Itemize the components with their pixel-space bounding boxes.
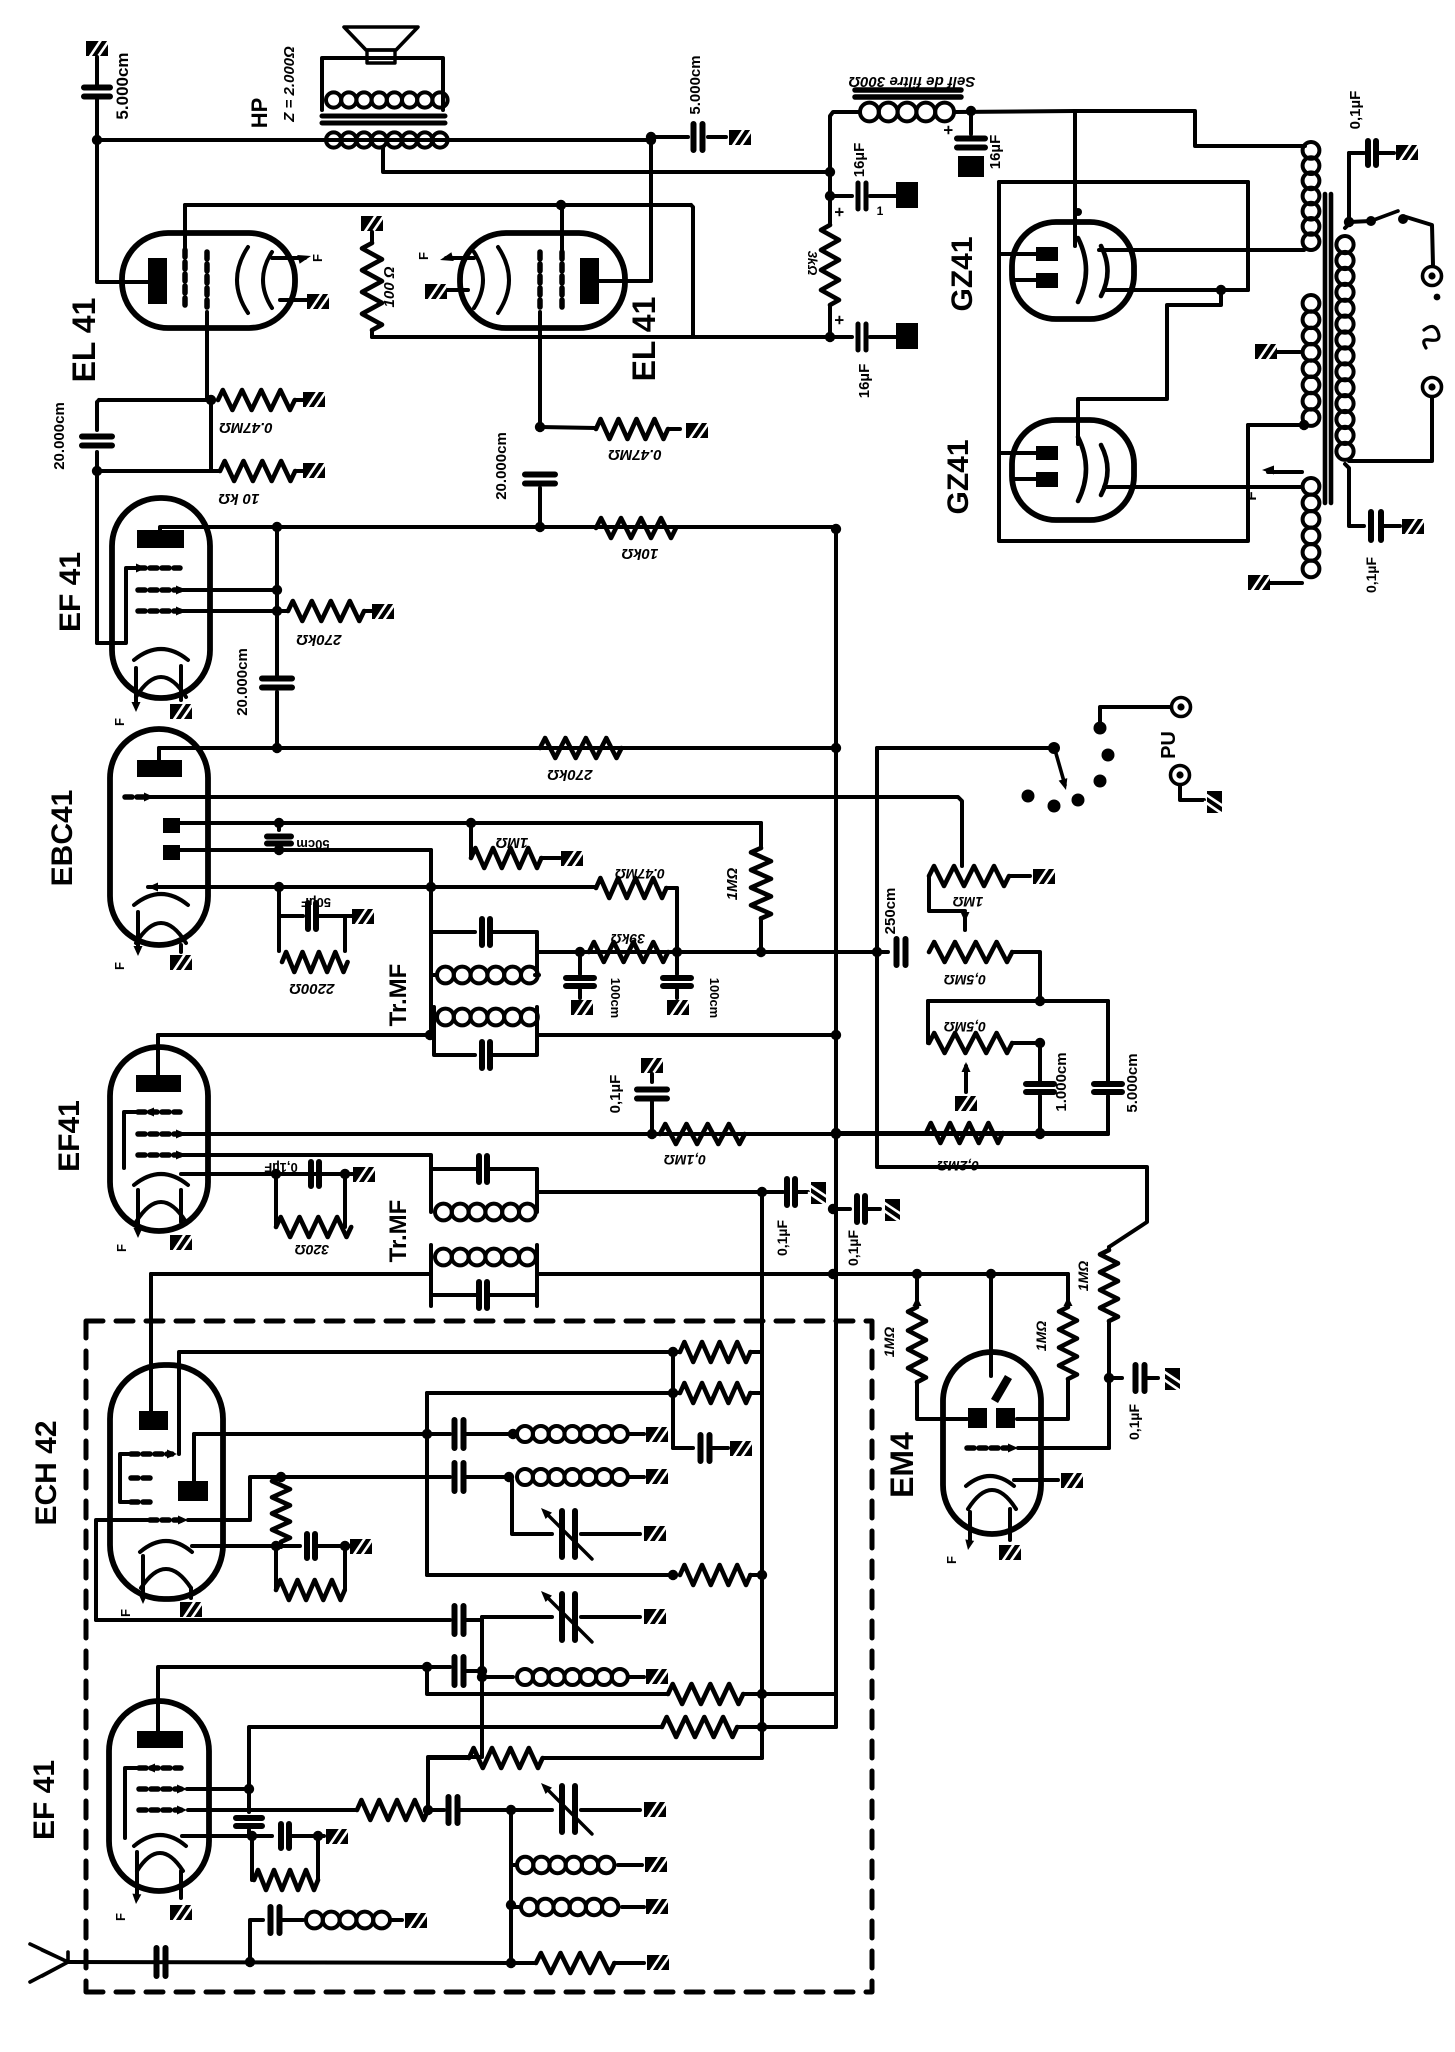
EL41 V2 cathode to ground: [446, 288, 468, 292]
EF41 V5 cathode arc: [134, 649, 188, 660]
resistor R31 cathode: [250, 1836, 254, 1880]
wire g2 line y1134: [181, 1132, 1108, 1136]
tube GZ41 V3 envelope: [1012, 222, 1134, 319]
tube GZ41 V4 envelope: [1012, 420, 1134, 520]
resistor 10kΩ R5 screen feed: [596, 518, 676, 538]
ECH42 V9 heater ground: [189, 1588, 193, 1598]
svg-text:20.000cm: 20.000cm: [51, 402, 68, 470]
EL41 V2 grid column 1: [559, 252, 565, 312]
svg-text:5.000cm: 5.000cm: [113, 52, 132, 119]
wire x277 coupling vertical: [275, 527, 279, 675]
EF41 V7 grid row2: [138, 1131, 180, 1137]
speaker HP cone: [344, 27, 418, 50]
wire 39k line y952: [539, 950, 888, 954]
capacitor 0.1µF C9 mains bottom: [1371, 512, 1381, 540]
wire GZ41 V4 cathode to filament winding: [1104, 485, 1302, 489]
capacitor C33 wave trap: [271, 1907, 280, 1933]
resistor 0.47MΩ R1: [206, 395, 216, 405]
svg-text:0,1µF: 0,1µF: [1347, 91, 1364, 130]
wire oscillator rail x762: [760, 1192, 764, 1758]
resistor 1MΩ R9 grid leak: [469, 823, 473, 857]
wire g3 line y611: [182, 609, 288, 613]
speaker voice coil box: [367, 50, 395, 63]
svg-text:F: F: [118, 1609, 133, 1617]
ECH42 V9 triode plate: [178, 1481, 208, 1501]
resistor osc cathode R23: [274, 1546, 278, 1590]
EBC41 V6 grid row: [125, 794, 148, 800]
resistor R29: [357, 1800, 428, 1820]
wire plate line to cap C28: [427, 1665, 450, 1669]
EL41 V2 cathode arc: [498, 247, 509, 313]
potentiometer 0.5MΩ R14: [929, 942, 1012, 962]
svg-text:270kΩ: 270kΩ: [296, 631, 342, 648]
wire ECH42 cathode line y1546: [192, 1544, 300, 1548]
capacitor C26 bypass: [673, 1446, 693, 1450]
svg-text:5.000cm: 5.000cm: [1124, 1053, 1141, 1112]
svg-text:1MΩ: 1MΩ: [881, 1327, 897, 1357]
capacitor 0.1µF C20: [787, 1179, 795, 1205]
svg-text:0,1µF: 0,1µF: [1126, 1404, 1142, 1441]
svg-text:0,5MΩ: 0,5MΩ: [944, 1019, 986, 1035]
plug symbol: [1424, 326, 1439, 348]
wire grid column x211 down: [209, 400, 213, 471]
ECH42 V9 triode plate lead: [192, 1434, 196, 1481]
EF41 V10 grid row2: [139, 1786, 181, 1792]
transformer Tr.MF1 primary coil: [429, 934, 433, 975]
svg-text:0,1µF: 0,1µF: [1363, 557, 1379, 594]
EF41 V7 cathode arc: [134, 1174, 188, 1185]
switch S2 contact b: [1048, 800, 1061, 813]
switch S2 contact f: [1094, 722, 1107, 735]
resistor R30 antenna coupling: [428, 1756, 469, 1760]
EBC41 V6 heater hook: [136, 923, 186, 943]
ECH42 V9 grid row4: [150, 1517, 182, 1523]
EF41 V10 internal bracket: [125, 1768, 141, 1838]
EF41 V5 plate: [137, 530, 184, 548]
svg-text:39kΩ: 39kΩ: [611, 931, 645, 947]
EL41 V1 screen lead up: [183, 205, 187, 250]
capacitor 100cm C14: [675, 952, 679, 974]
capacitor C28: [455, 1657, 464, 1685]
EBC41 V6 diode plate 2: [163, 845, 180, 860]
resistor R26: [680, 1565, 750, 1585]
svg-text:0,1MΩ: 0,1MΩ: [664, 1152, 706, 1168]
EF41 V7 cathode line y1174: [181, 1172, 352, 1176]
svg-text:F: F: [113, 1913, 128, 1921]
svg-text:2200Ω: 2200Ω: [289, 980, 335, 997]
node y527 x540: [535, 522, 545, 532]
EF41 V10 plate: [137, 1731, 183, 1748]
wire MF1 to rail y1035: [537, 1033, 836, 1037]
switch S1 lever: [1349, 221, 1371, 222]
switch S2 contact d: [1094, 775, 1107, 788]
wire y1434 triode plate line: [194, 1432, 450, 1436]
svg-text:+: +: [830, 207, 849, 217]
EF41 V5 grid1 internal lead: [97, 568, 140, 643]
wire grid line y797: [148, 797, 962, 865]
wire cathode line y887: [148, 885, 596, 889]
capacitor 250cm C15: [897, 939, 906, 965]
wire eye ray electrode: [989, 1274, 993, 1376]
transformer Tr.MF2 primary tuning cap: [479, 1282, 487, 1308]
transformer T1 primary winding: [1336, 236, 1353, 460]
EL41 V2 plate: [580, 258, 599, 304]
svg-text:0.47MΩ: 0.47MΩ: [608, 446, 662, 463]
wire primary top to switch line: [1345, 153, 1349, 228]
resistor 39kΩ R11: [589, 942, 668, 962]
svg-text:EM4: EM4: [884, 1432, 920, 1498]
EF41 V10 plate lead: [158, 1667, 427, 1731]
output transformer core: [322, 116, 445, 123]
terminal PU hot: [1172, 698, 1191, 717]
EL41 V1 grid lead down: [205, 312, 209, 400]
resistor 270kΩ R7 plate load: [540, 738, 622, 758]
transformer T1 filament winding S3: [1303, 478, 1320, 577]
tube EBC41 V6 envelope: [110, 729, 208, 945]
transformer Tr.MF2 secondary tuning cap: [479, 1156, 487, 1182]
svg-text:100cm: 100cm: [707, 978, 722, 1018]
EF41 V10 cathode arc: [134, 1835, 186, 1846]
coil L3 antenna: [517, 1669, 628, 1685]
wire bus2 y205 screen line: [185, 203, 691, 207]
capacitor C25 padder: [455, 1463, 464, 1491]
capacitor 100cm C13: [578, 952, 582, 974]
svg-text:F: F: [112, 962, 127, 970]
EL41 V1 cathode to ground: [280, 298, 307, 302]
EF41 V10 heater ground: [179, 1871, 183, 1898]
transformer T1 core: [1325, 194, 1331, 503]
wire bus1 y140: [97, 138, 651, 142]
EF41 V5 heater hook: [136, 677, 186, 697]
svg-text:HP: HP: [247, 98, 272, 129]
tube ECH42 V9 envelope: [110, 1365, 223, 1599]
wire x427 vertical: [425, 1393, 429, 1575]
EM4 V8 target plate 1: [968, 1408, 987, 1428]
svg-text:EBC41: EBC41: [46, 790, 79, 887]
resistor 320Ω R18: [274, 1174, 278, 1227]
resistor 0.2MΩ R16: [926, 1123, 1003, 1143]
output transformer secondary coil: [326, 132, 448, 147]
EBC41 V6 plate lead: [157, 748, 161, 760]
wire 0.47M right leg down: [666, 886, 677, 890]
potentiometer 1MΩ R13: [929, 866, 1009, 886]
node junction bus1-left: [92, 135, 102, 145]
tube EL41 V2 envelope: [460, 233, 625, 328]
wire rectifier box top: [999, 180, 1248, 184]
ECH42 V9 plate lead up: [149, 1274, 153, 1411]
EF41 V10 F arrow: [135, 1852, 139, 1898]
capacitor 20.000cm C3 series: [525, 475, 555, 484]
wire osc grid line y1477: [188, 1477, 450, 1520]
wire GZ41 V3 cathode to HV secondary S1: [1099, 248, 1304, 252]
wire terminal 2 to primary bottom: [1349, 397, 1432, 461]
wire PU ground lead: [1180, 785, 1204, 800]
wire osc cathode extension: [276, 1544, 281, 1548]
capacitor C31 cathode: [252, 1834, 272, 1838]
EF41 V10 heater hook: [137, 1853, 183, 1871]
svg-text:20.000cm: 20.000cm: [493, 432, 510, 500]
EM4 V8 F arrow: [968, 1512, 972, 1542]
svg-text:EF 41: EF 41: [28, 1760, 61, 1840]
svg-text:0,1µF: 0,1µF: [845, 1230, 861, 1267]
svg-text:20.000cm: 20.000cm: [234, 648, 251, 716]
speaker frame box: [322, 58, 443, 110]
wire EL41 V1 plate to bus1: [97, 140, 150, 282]
svg-text:0,1µF: 0,1µF: [774, 1220, 790, 1257]
ECH42 V9 grid row1: [131, 1451, 172, 1457]
wire g2 to x277: [181, 588, 277, 592]
EM4 V8 grid line to cap: [1018, 1446, 1109, 1450]
EF41 V7 grid1 internal bracket: [124, 1112, 140, 1168]
svg-text:16µF: 16µF: [856, 364, 873, 399]
svg-text:Tr.MF: Tr.MF: [385, 964, 412, 1027]
ECH42 V9 F arrow: [141, 1556, 145, 1598]
wire diode2 line y850: [180, 848, 431, 852]
switch S2 lever: [1055, 750, 1065, 785]
trimmer capacitor CT2: [480, 1617, 484, 1620]
node x97 y471: [92, 466, 102, 476]
svg-text:1MΩ: 1MΩ: [495, 834, 528, 851]
potentiometer 0.5MΩ R15: [926, 1001, 930, 1043]
wire x651 bus1 down to EL41 V2 plate: [598, 137, 651, 281]
GZ41 V3 anode arcs: [1078, 238, 1086, 302]
svg-text:1MΩ: 1MΩ: [1033, 1321, 1049, 1351]
capacitor 0.1µF C18 screen bypass: [641, 1057, 663, 1075]
wire y1810 to cap C30: [428, 1808, 444, 1812]
EL41 V2 grid lead down: [538, 312, 542, 427]
svg-text:0.47MΩ: 0.47MΩ: [219, 419, 273, 436]
wire y1434 after cap to coil: [464, 1432, 513, 1436]
EF41 V7 heater hook: [136, 1202, 186, 1222]
wire y1351 osc feed: [179, 1352, 673, 1454]
svg-text:0,2MΩ: 0,2MΩ: [937, 1158, 979, 1174]
capacitor 5.000cm C17: [1106, 1001, 1110, 1081]
svg-text:10kΩ: 10kΩ: [621, 545, 658, 562]
node bus2 x561: [556, 200, 566, 210]
svg-text:250cm: 250cm: [882, 888, 899, 935]
EM4 V8 heater hook: [968, 1490, 1016, 1509]
mains terminal 2: [1423, 378, 1442, 397]
wire antenna line y1962: [68, 1962, 536, 1963]
dashed box RF section: [86, 1321, 872, 1992]
capacitor 0.1µF C22 grid: [1109, 1376, 1122, 1380]
resistor R25 osc feed 2: [668, 1388, 678, 1398]
GZ41 V4 leads to box: [999, 451, 1036, 455]
trimmer capacitor CT1: [562, 1511, 575, 1557]
wire rectifier box left/bottom: [999, 182, 1248, 541]
coil L2 osc: [517, 1469, 628, 1485]
svg-text:0.47MΩ: 0.47MΩ: [615, 866, 665, 882]
resistor 10kΩ R2: [220, 461, 295, 481]
tube EF41 V5 envelope: [112, 498, 210, 698]
ECH42 V9 cathode arc: [140, 1541, 192, 1552]
wire x427 down to y1694: [427, 1667, 668, 1694]
wire y1134 corner at x1108: [1106, 1133, 1110, 1134]
svg-text:270kΩ: 270kΩ: [547, 766, 593, 783]
svg-text:3kΩ: 3kΩ: [805, 251, 820, 276]
capacitor 5.000cm to ground top-left: [86, 40, 108, 58]
EM4 V8 target plate 2: [996, 1408, 1015, 1428]
choke Self de filtre 300Ω core: [855, 90, 961, 97]
capacitor 1.000cm C16: [1038, 1043, 1042, 1081]
capacitor C29 on x249: [247, 1789, 251, 1812]
switch S2 pole: [1048, 742, 1060, 754]
wire plate line y527: [161, 525, 836, 529]
EF41 V7 plate lead up: [156, 1035, 160, 1075]
svg-text:5.000cm: 5.000cm: [687, 55, 704, 114]
EL41 V2 screen lead up: [560, 205, 564, 252]
terminal PU ground: [1171, 766, 1190, 785]
plug dot: [1434, 294, 1441, 301]
EL41 V1 cathode arc: [237, 247, 248, 313]
svg-text:1MΩ: 1MΩ: [724, 867, 741, 900]
svg-text:GZ41: GZ41: [946, 236, 979, 311]
EBC41 V6 cathode arc: [134, 894, 188, 905]
wire x250 up to wave trap: [250, 1920, 263, 1962]
resistor 0.1MΩ R17: [660, 1124, 745, 1144]
svg-text:0,5MΩ: 0,5MΩ: [944, 972, 986, 988]
capacitor C27: [455, 1606, 464, 1634]
capacitor 0.1µF C8 top right: [1349, 151, 1364, 155]
resistor 1MΩ R19: [913, 1297, 922, 1306]
resistor R32: [536, 1953, 614, 1973]
ECH42 V9 grid row2: [131, 1475, 152, 1481]
wire tone line y1133: [836, 1131, 1108, 1135]
svg-text:Z = 2.000Ω: Z = 2.000Ω: [281, 46, 298, 123]
GZ41 V3 leads to box: [999, 252, 1036, 256]
wire x482 vertical: [480, 1620, 484, 1756]
capacitor 0.1µF C19 cathode: [311, 1162, 319, 1186]
tube EL41 V1 envelope: [122, 233, 295, 328]
wire plate line y748: [159, 746, 836, 750]
wire MF2 to 0.1µF line y1192: [537, 1190, 783, 1194]
EL41 V1 grid column 2: [204, 252, 210, 312]
tube EM4 V8 envelope: [943, 1352, 1041, 1534]
capacitor 0.1µF C21 at rail: [828, 1204, 838, 1214]
svg-text:PU: PU: [1158, 731, 1180, 759]
svg-text:100 Ω: 100 Ω: [381, 266, 398, 307]
transformer Tr.MF2 secondary coil: [429, 1169, 433, 1212]
svg-text:1MΩ: 1MΩ: [1075, 1261, 1091, 1291]
switch S2 contact c: [1072, 794, 1085, 807]
wire choke left down PSU rail x830: [830, 112, 860, 225]
svg-text:ECH 42: ECH 42: [30, 1420, 63, 1525]
svg-text:EF41: EF41: [53, 1100, 86, 1172]
wire B+ rail x836: [834, 529, 838, 1277]
ECH42 V9 hexode plate: [139, 1411, 168, 1430]
svg-text:1MΩ: 1MΩ: [953, 894, 983, 910]
wire 1M pot left to 0.5M wiper: [929, 876, 965, 911]
EF41 V5 grid row 3: [138, 608, 180, 614]
resistor 50kΩ R22 osc grid leak: [272, 1477, 290, 1542]
wire riser x877: [877, 748, 1147, 1247]
svg-text:F: F: [114, 1244, 129, 1252]
GZ41 V4 anode arcs: [1078, 437, 1086, 501]
GZ41 V3 filament plates: [1036, 247, 1058, 261]
trimmer capacitor CT3: [562, 1786, 575, 1832]
wire B+ rail x836 lower: [834, 1274, 838, 1727]
wire MF2 primary left to ECH42 plate: [151, 1272, 431, 1276]
ECH42 V9 row4 lead left: [96, 1520, 150, 1620]
wire GZ41 V4 anode route up: [1078, 290, 1221, 444]
capacitor 16µF C7 electrolytic vertical: [969, 111, 973, 134]
svg-text:F: F: [1243, 491, 1260, 500]
capacitor C32 antenna: [157, 1948, 166, 1976]
EF41 V10 grid row3: [139, 1807, 181, 1813]
wire x511 vertical: [509, 1810, 513, 1963]
node bus1 x651: [646, 132, 656, 142]
EF41 V5 cathode ground: [179, 666, 183, 700]
svg-text:+: +: [830, 315, 849, 325]
svg-text:320Ω: 320Ω: [295, 1242, 329, 1258]
transformer S3 ground: [1248, 574, 1270, 592]
resistor 100Ω: [361, 215, 383, 233]
EF41 V7 cathode ground stem: [179, 1190, 183, 1222]
svg-text:F: F: [416, 252, 431, 260]
EBC41 V6 cathode ground: [179, 945, 183, 952]
EF41 V5 grid row 2: [138, 587, 180, 593]
svg-text:+: +: [939, 125, 958, 135]
wire R29 up to y1757: [428, 1757, 482, 1810]
wire g1 line y1155 to MF2: [182, 1155, 431, 1169]
label F arrow filament: [1268, 470, 1302, 474]
wire diode2 to MF1 secondary: [429, 850, 433, 1035]
svg-text:50µF: 50µF: [301, 895, 331, 910]
switch S2 contact e: [1102, 749, 1115, 762]
resistor 3kΩ R4: [821, 225, 839, 305]
capacitor osc cathode C23: [307, 1534, 315, 1558]
resistor 1MΩ R21: [1107, 1247, 1111, 1250]
tube EF41 V7 envelope: [110, 1047, 208, 1231]
mains terminal 1: [1423, 267, 1442, 286]
resistor 1MΩ R20: [1064, 1297, 1073, 1306]
wire choke right to node x971: [955, 111, 1075, 112]
wire switch pole feed: [877, 746, 1054, 750]
EM4 ray flag: [991, 1375, 1012, 1403]
wire trimmer branch: [509, 1477, 552, 1534]
wire 0.5M2 wiper to ground: [962, 1062, 971, 1072]
svg-text:GZ41: GZ41: [942, 439, 975, 514]
EBC41 V6 plate: [137, 760, 182, 777]
resistor 2200Ω R8: [277, 916, 281, 951]
capacitor 16µF C5 electrolytic: [825, 191, 835, 201]
svg-text:0,1µF: 0,1µF: [607, 1075, 624, 1114]
EF41 V7 F arrow: [136, 1190, 140, 1232]
EM4 V8 heater ground: [1008, 1509, 1012, 1540]
svg-text:F: F: [310, 254, 325, 262]
wire screen route x693 down to y337: [691, 205, 693, 337]
wire g2 line y1789: [187, 1787, 249, 1791]
capacitor 20.000cm C10: [262, 679, 292, 688]
transformer Tr.MF1 secondary tuning cap: [434, 1035, 475, 1055]
wire MF2 primary right y1274 to EM4: [537, 1272, 1068, 1276]
node y172 at rail: [825, 167, 835, 177]
svg-text:EF 41: EF 41: [54, 552, 87, 632]
EM4 V8 grid row: [967, 1445, 1012, 1451]
EF41 V7 grid row1: [138, 1109, 180, 1115]
EL41 V1 filament F arrow: [272, 256, 305, 260]
output transformer primary coil: [326, 92, 448, 107]
wire 1M pot wiper: [960, 865, 964, 866]
resistor R27: [668, 1684, 743, 1704]
capacitor C24 padder: [455, 1420, 464, 1448]
resistor 0.47MΩ R12 AVC: [596, 878, 666, 898]
svg-text:Self de filtre 300Ω: Self de filtre 300Ω: [848, 73, 975, 90]
EL41 V2 filament F arrow: [446, 256, 474, 260]
wire x249 vertical with cap: [249, 1727, 662, 1789]
EF41 V7 grid row3: [138, 1152, 180, 1158]
capacitor 5.000cm C4 with ground: [646, 135, 656, 145]
